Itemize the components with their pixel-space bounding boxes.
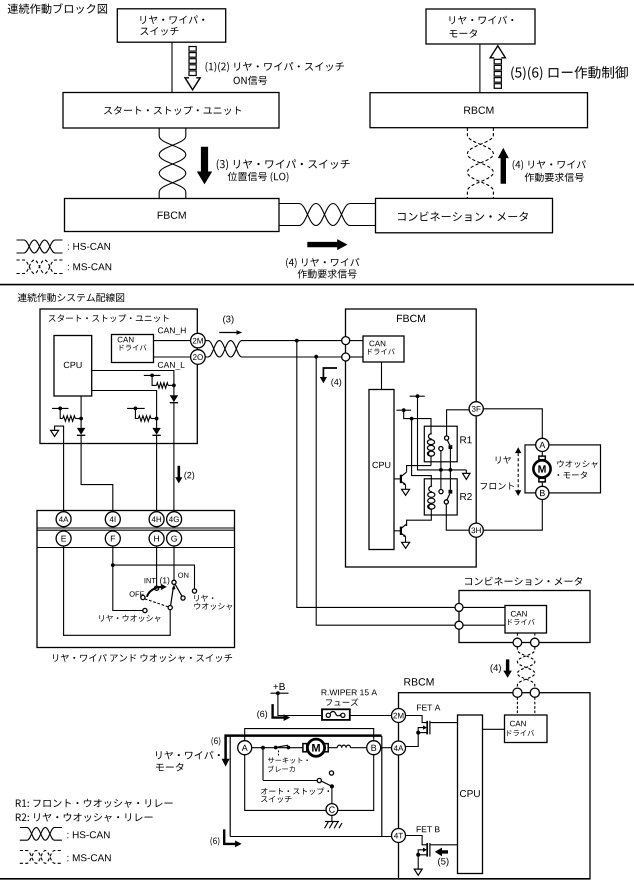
annotation (6) thick line + down arrow (motor top) xyxy=(226,736,382,760)
pin 4T (RBCM) xyxy=(392,829,406,843)
arrow (4) up xyxy=(498,148,509,184)
wire switch common to C xyxy=(331,786,333,803)
annotation (4) rear wiper operation request signal (right) xyxy=(513,160,586,170)
wire: stub B to R1 coil xyxy=(404,410,431,433)
wire CPU line2 to cell 3 node xyxy=(92,391,157,419)
box: RBCM (wiring) xyxy=(399,693,591,879)
legend MS-CAN symbol (bottom) xyxy=(20,851,62,864)
wire CPU line1 to cell 1 node xyxy=(92,371,174,386)
wire: CAN driver to CPU (FBCM) xyxy=(381,362,383,390)
pull-up cell 3 (start-stop unit) xyxy=(127,407,145,409)
annotation (2) down arrow xyxy=(175,466,182,484)
box: combination meter (block) xyxy=(376,198,553,232)
pull-up cell 2 (start-stop unit) xyxy=(52,407,68,409)
ground (Q2) xyxy=(405,537,407,543)
wire H to INT contact xyxy=(156,546,158,586)
R2 contacts xyxy=(439,490,443,494)
box: rear wiper switch xyxy=(117,9,225,42)
CPU U7 (RBCM) xyxy=(458,715,483,874)
fuse R.WIPER 15A xyxy=(322,689,377,695)
wire C to B leg xyxy=(338,755,374,811)
label: combination meter xyxy=(465,577,582,586)
legend HS-CAN symbol (bottom) xyxy=(20,828,62,841)
CAN driver U5 (meter) xyxy=(505,606,547,634)
wire B to 4A xyxy=(381,747,392,749)
wire CAN_L to pin 2O xyxy=(154,356,191,358)
diode D3 xyxy=(156,419,158,428)
wire: RBCM to rear wiper motor xyxy=(479,44,481,93)
FET A xyxy=(417,705,440,711)
box: rear wiper motor (top edge drawn by thick annotation line) xyxy=(229,736,231,837)
pin meter MS-CAN 2 xyxy=(531,638,540,647)
wire: switch to start-stop unit xyxy=(171,42,173,92)
wire R2 lower contact to 3H xyxy=(446,504,469,530)
wire G to ON contact xyxy=(173,546,175,580)
resistor (cell 3) xyxy=(138,416,151,421)
annotation (4) elbow arrow down xyxy=(323,368,337,378)
box: rear wiper motor xyxy=(426,9,535,44)
wires meter pins to CAN driver xyxy=(463,606,505,608)
R1 contact to 3F xyxy=(447,410,470,436)
label (3) + small arrow xyxy=(223,315,233,324)
circuit breaker label xyxy=(278,751,280,757)
resistor (cell 1) xyxy=(157,383,169,388)
+B supply xyxy=(273,683,284,690)
wires: FBCM pins to CAN driver xyxy=(350,340,363,342)
node: rail dots xyxy=(439,468,443,472)
contact INT xyxy=(155,586,159,590)
long CAN_H branch wire to meter xyxy=(297,341,455,608)
inductor coil after motor xyxy=(328,747,337,749)
terminal C (rear wiper motor) xyxy=(326,804,338,816)
wires rail into R2 xyxy=(440,470,442,490)
pin 3F (FBCM) xyxy=(469,402,483,416)
contact ON xyxy=(172,580,176,584)
terminal A (washer motor) xyxy=(536,438,549,451)
wire CPU to CAN driver (RBCM) xyxy=(483,728,505,730)
annotation (4) rear wiper operation request signal xyxy=(286,258,359,268)
power stub B (FBCM) xyxy=(396,409,411,411)
legend R1 xyxy=(16,799,173,808)
pin 2M (RBCM) xyxy=(392,709,406,723)
annotation (1)(2) rear wiper switch ON signal xyxy=(206,62,344,72)
transistor Q1 (FBCM) xyxy=(394,478,401,480)
wire FET B source to ground xyxy=(417,855,419,869)
CPU U1 (start-stop unit) xyxy=(54,336,92,397)
wire washer motor B to 3H xyxy=(483,500,542,531)
wire FET A source to 4A xyxy=(406,733,419,747)
wire motor box to 4T xyxy=(230,836,391,838)
pin RBCM MS-CAN 2 xyxy=(530,688,539,697)
motor feed wire A-M-B xyxy=(252,747,303,749)
pin: FBCM CAN_L xyxy=(342,353,350,361)
transistor Q2 (FBCM) xyxy=(394,530,401,532)
label: rear wiper and washer switch xyxy=(53,654,232,662)
contact OFF xyxy=(141,595,145,599)
washer motor internals xyxy=(541,452,543,487)
label CAN_H xyxy=(158,327,186,335)
relay R1 xyxy=(424,426,457,462)
legend: MS-CAN symbol xyxy=(17,260,63,274)
CPU U4 (FBCM) xyxy=(369,390,394,550)
arrow (3) down xyxy=(197,147,212,185)
annotation (6) elbow arrow (fuse) xyxy=(257,710,267,718)
resistor (cell 2) xyxy=(63,416,76,421)
twisted pair: FBCM to combination meter (HS-CAN) xyxy=(279,204,376,226)
switch labels xyxy=(145,578,156,583)
FET B xyxy=(417,826,440,832)
wire E to pivot xyxy=(64,546,171,635)
switch blade xyxy=(171,587,174,606)
CAN driver U3 (FBCM) xyxy=(363,336,404,362)
legend: HS-CAN symbol xyxy=(17,240,63,253)
node: CAN_L junction xyxy=(314,355,318,359)
long CAN_L branch wire to meter xyxy=(316,357,455,626)
pin RBCM MS-CAN 1 xyxy=(513,688,522,697)
title: wiring diagram xyxy=(18,293,125,302)
power stub A (FBCM) xyxy=(410,395,425,397)
curved arrow (1) xyxy=(147,587,162,597)
pin 4A (RBCM) xyxy=(392,741,406,755)
staple wire A to B over motor xyxy=(245,729,374,741)
pin 3H (FBCM) xyxy=(469,523,483,537)
diode D1 xyxy=(173,385,175,395)
box: FBCM (block) xyxy=(65,199,280,232)
box: washer motor xyxy=(525,445,601,493)
connector pins row 2 xyxy=(56,531,71,546)
dashed link OFF to pivot xyxy=(145,599,168,607)
ground (Q1) xyxy=(405,485,407,490)
arrow (4) right xyxy=(307,239,347,250)
pull-up cell 1 (CAN_L, start-stop unit) xyxy=(144,374,161,376)
box: RBCM (block) xyxy=(370,93,588,128)
CAN driver U2 (start-stop unit) xyxy=(112,335,154,363)
chassis ground under C xyxy=(331,815,333,821)
box: combination meter (wiring) xyxy=(459,591,590,643)
motor M (rear wiper) xyxy=(303,744,307,752)
box: FBCM (wiring) xyxy=(346,309,477,567)
pin meter CAN_H xyxy=(455,603,463,611)
rear/front direction arrows xyxy=(496,456,511,464)
wire: stub A down to contact rail xyxy=(418,396,467,470)
wire +B to fuse to 2M xyxy=(278,693,322,715)
contact pivot xyxy=(168,606,172,610)
relay R2 xyxy=(424,479,457,515)
motor M (washer) xyxy=(533,460,550,477)
dashed stubs to bottom pins xyxy=(516,633,518,638)
contact aux xyxy=(181,596,185,600)
pin meter CAN_L xyxy=(455,621,463,629)
wire A down to C line xyxy=(245,755,327,811)
annotation (5) left arrow xyxy=(435,848,448,857)
circuit breaker blade xyxy=(276,745,288,747)
label RBCM xyxy=(404,678,433,685)
box: start-stop unit xyxy=(63,93,279,129)
striped signal arrow (1)(2) down xyxy=(189,47,196,52)
label CAN_L xyxy=(158,362,185,370)
box: rear wiper and washer switch xyxy=(37,511,235,648)
terminal B (rear wiper motor) xyxy=(367,741,381,755)
pin meter MS-CAN 1 xyxy=(513,638,522,647)
pin 2O (start-stop unit) xyxy=(191,350,206,365)
dashed stubs to CAN driver (RBCM) xyxy=(516,697,518,715)
ground (FET B) xyxy=(414,869,422,875)
auto-stop switch xyxy=(262,748,264,781)
R1 lower contact xyxy=(439,447,443,451)
twisted pair: meter to RBCM (MS-CAN, dashed) xyxy=(517,647,534,688)
node: CAN_H junction xyxy=(295,339,299,343)
CAN driver U6 (RBCM) xyxy=(505,715,548,743)
pin: FBCM CAN_H xyxy=(342,337,350,345)
contact rear washer (right) xyxy=(192,589,196,593)
wire CAN_H to pin 2M xyxy=(154,340,191,342)
pin 2M (start-stop unit) xyxy=(191,333,206,348)
wire F branch xyxy=(113,546,143,611)
box: start-stop unit (wiring) xyxy=(40,309,197,444)
twisted pair: start-stop unit to FBCM (HS-CAN) xyxy=(159,128,186,199)
annotation (4) down arrow (meter-RBCM) xyxy=(490,664,500,673)
title: block diagram xyxy=(8,3,107,14)
contact rear washer (left) xyxy=(143,608,147,612)
twisted pair: 2M/2O to FBCM (HS-CAN) xyxy=(205,341,342,357)
blade to aux contact xyxy=(175,585,182,597)
bottom rule xyxy=(0,878,590,880)
striped control arrow (5)(6) up xyxy=(490,46,505,58)
wire CPU bottom to cell 2 node xyxy=(80,396,82,419)
wire R1 coil to transistor Q1 xyxy=(407,466,431,472)
twisted pair: RBCM to combination meter (MS-CAN, dashed) xyxy=(467,128,493,199)
terminal A (rear wiper motor) xyxy=(238,741,252,755)
separator line xyxy=(0,284,634,286)
legend R2 xyxy=(16,813,153,822)
ground (start-stop unit) xyxy=(51,430,59,436)
annotation (5)(6) low operation control xyxy=(511,66,628,80)
annotation (3) rear wiper switch position signal (LO) xyxy=(217,159,350,170)
terminal B (washer motor) xyxy=(536,486,549,499)
annotation (6) elbow arrow (4T) xyxy=(210,837,219,846)
ground (rail, FBCM) xyxy=(465,470,467,474)
wire: node to R2 coil xyxy=(412,419,432,486)
wire 3F to washer motor A xyxy=(483,409,542,439)
label: rear wiper motor xyxy=(156,751,220,760)
diode D2 xyxy=(80,419,82,428)
connector pins row 1 xyxy=(56,512,71,527)
R1 blade xyxy=(447,440,450,445)
